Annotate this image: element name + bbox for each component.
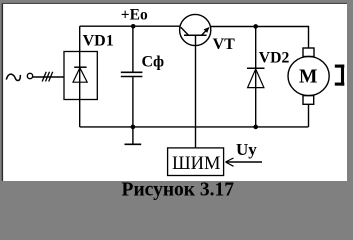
frame left border xyxy=(1,3,3,181)
capacitor top lead xyxy=(132,26,134,72)
svg-text:Сф: Сф xyxy=(142,54,165,71)
top-right wire to motor xyxy=(210,27,309,49)
junction dot top capacitor xyxy=(131,24,136,29)
bottom rail xyxy=(80,126,309,128)
frame top border xyxy=(2,2,347,4)
svg-text:VD1: VD1 xyxy=(83,32,114,49)
svg-text:Uy: Uy xyxy=(236,140,257,159)
white figure area xyxy=(3,3,348,181)
svg-text:M: M xyxy=(299,67,317,88)
VD1 diode triangle xyxy=(73,68,87,82)
VT base lead down to PWM xyxy=(195,35,197,148)
rectifier VD1 box xyxy=(64,52,97,100)
svg-text:+Eo: +Eo xyxy=(121,7,148,24)
capacitor C-f plates xyxy=(121,71,143,73)
motor shaft bracket xyxy=(335,65,345,86)
Uy arrowhead xyxy=(226,158,234,162)
svg-text:VD2: VD2 xyxy=(259,49,290,66)
VT base bar xyxy=(184,34,207,36)
diode VD2 vertical line xyxy=(255,27,257,127)
motor bottom brush xyxy=(303,96,314,105)
svg-text:VT: VT xyxy=(213,36,236,53)
three-phase slashes xyxy=(42,72,46,82)
ground bar xyxy=(125,143,142,145)
PWM block box xyxy=(168,148,224,176)
junction dot bottom capacitor xyxy=(131,125,136,130)
junction dot bottom VD2 xyxy=(253,125,258,130)
VT collector slant (left) xyxy=(181,27,189,35)
AC source tilde xyxy=(6,74,20,80)
svg-text:ШИМ: ШИМ xyxy=(172,154,220,174)
VD2 triangle xyxy=(248,69,264,88)
motor M body xyxy=(288,56,329,95)
Uy arrow line xyxy=(227,161,263,163)
capacitor bottom lead to ground xyxy=(132,77,134,144)
motor bottom wire xyxy=(308,104,310,127)
VD1 diode cathode bar xyxy=(74,66,86,68)
VD2 cathode bar xyxy=(247,67,265,69)
top rail +Eo xyxy=(80,25,181,27)
input terminal circle xyxy=(27,73,32,78)
motor top brush xyxy=(303,48,314,57)
junction dot top VD2 xyxy=(253,24,258,29)
svg-text:Рисунок 3.17: Рисунок 3.17 xyxy=(122,179,235,200)
VD1 vertical feed line (top rail corner down through box to bottom rail) xyxy=(79,26,81,127)
VT emitter slant (right) with arrow xyxy=(202,28,209,35)
wire: terminal to VD1 xyxy=(33,76,64,78)
transistor VT circle xyxy=(180,14,211,45)
